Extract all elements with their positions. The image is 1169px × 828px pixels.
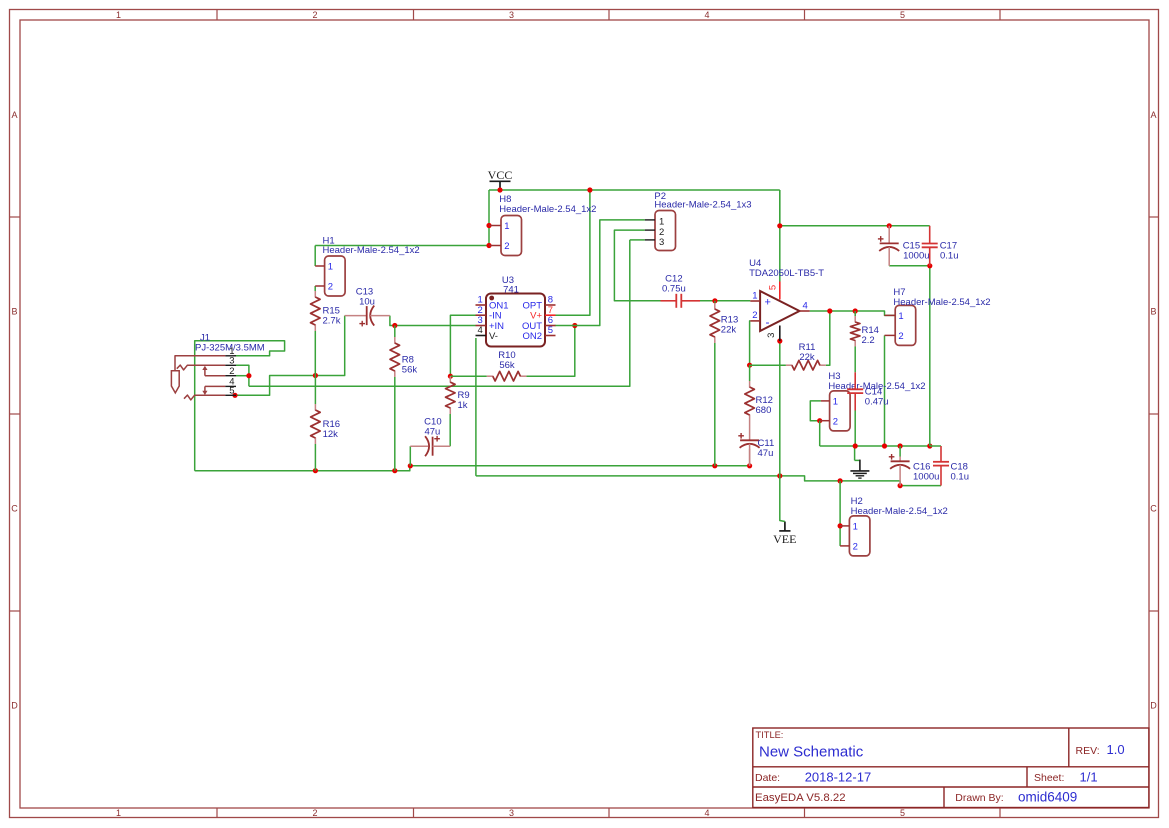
- H1 pin 2 stub: [315, 285, 324, 287]
- svg-text:3: 3: [659, 237, 664, 248]
- svg-text:VEE: VEE: [773, 532, 796, 546]
- wire C10 left drop: [409, 446, 411, 466]
- junction VCC at stem: [497, 187, 502, 192]
- junction output at R14: [853, 308, 858, 313]
- capacitor C16 1000u: [899, 457, 901, 462]
- wire H3 pin1 to pin2 loop: [810, 401, 821, 421]
- svg-text:+: +: [765, 297, 771, 309]
- header P2 box: [655, 211, 676, 251]
- wire decoupling bottom riser: [929, 266, 931, 446]
- svg-text:5: 5: [900, 10, 905, 20]
- resistor R16: [314, 404, 316, 411]
- svg-text:TDA2050L-TB5-T: TDA2050L-TB5-T: [749, 268, 824, 279]
- svg-text:56k: 56k: [499, 360, 515, 371]
- svg-text:3: 3: [766, 333, 777, 338]
- junction H2 pin1: [838, 523, 843, 528]
- svg-text:1: 1: [853, 521, 858, 532]
- resistor R8: [394, 337, 396, 344]
- capacitor C13 10u: [345, 315, 367, 317]
- svg-text:3: 3: [509, 808, 514, 818]
- wire P2 pin3 stub wire: [630, 239, 645, 241]
- header H2 box: [849, 516, 870, 556]
- svg-text:ON2: ON2: [522, 331, 542, 342]
- wire gnd rail: [820, 445, 930, 447]
- wire VCC rail left drop to H8: [488, 190, 490, 246]
- wire J1 pin5 to C13 branch: [235, 316, 345, 396]
- svg-text:Header-Male-2.54_1x2: Header-Male-2.54_1x2: [893, 297, 990, 308]
- svg-text:0.75u: 0.75u: [662, 283, 686, 294]
- svg-text:47u: 47u: [424, 426, 440, 437]
- wire C14 bottom to gnd rail: [854, 411, 856, 447]
- wire P2 pin2 to C12 left: [614, 230, 660, 301]
- svg-text:1: 1: [328, 262, 333, 273]
- svg-text:2: 2: [752, 310, 757, 321]
- capacitor C12 0.75u: [661, 300, 677, 302]
- wire R13 to mid rail: [714, 343, 716, 466]
- junction VEE rail at U4 pin3 drop: [777, 473, 782, 478]
- junction OUT node: [572, 323, 577, 328]
- svg-text:2.2: 2.2: [862, 335, 875, 346]
- svg-text:Header-Male-2.54_1x2: Header-Male-2.54_1x2: [851, 506, 948, 517]
- svg-text:TITLE:: TITLE:: [756, 730, 784, 740]
- svg-text:2: 2: [328, 282, 333, 293]
- H8 pin 2 stub: [489, 245, 501, 247]
- junction J1 pin2-3 node: [246, 373, 251, 378]
- wire J1 pin2 stub: [236, 375, 249, 377]
- svg-text:omid6409: omid6409: [1018, 790, 1077, 805]
- capacitor C14 0.47u: [854, 372, 856, 389]
- power symbol VEE: [779, 530, 790, 532]
- svg-text:4: 4: [704, 10, 709, 20]
- ground symbol: [850, 446, 869, 478]
- wire H7 pin2 drop to gnd rail: [884, 335, 886, 446]
- resistor R9: [449, 376, 451, 383]
- svg-text:56k: 56k: [402, 364, 418, 375]
- svg-text:EasyEDA V5.8.22: EasyEDA V5.8.22: [755, 792, 846, 804]
- wire VCC rail to decoupling caps: [779, 190, 781, 226]
- wire H1 pin1 riser: [314, 246, 316, 267]
- resistor R10: [487, 375, 494, 377]
- header H1 box: [325, 256, 346, 296]
- svg-text:741: 741: [503, 284, 519, 295]
- frame column numbers 1-5: [116, 10, 905, 818]
- wire H2 riser: [839, 481, 841, 546]
- svg-text:3: 3: [509, 10, 514, 20]
- svg-text:5: 5: [548, 325, 553, 336]
- power symbol VCC: [490, 180, 511, 182]
- junction output at R11 riser: [827, 308, 832, 313]
- svg-text:Header-Male-2.54_1x3: Header-Male-2.54_1x3: [654, 200, 751, 211]
- junction C16 bottom: [898, 483, 903, 488]
- svg-text:VCC: VCC: [488, 168, 513, 182]
- svg-text:V-: V-: [489, 331, 498, 342]
- H7 pin 1 stub: [885, 314, 896, 316]
- svg-text:Drawn By:: Drawn By:: [955, 792, 1003, 804]
- resistor R15: [314, 291, 316, 298]
- junction gnd at H7 drop: [882, 443, 887, 448]
- wire input long horizontal to P2 pin3: [249, 240, 630, 386]
- wire J1 pin3 to pin2 junction: [236, 365, 249, 386]
- junction J1 pin5: [232, 393, 237, 398]
- svg-text:0.1u: 0.1u: [940, 250, 959, 261]
- svg-text:D: D: [11, 701, 18, 711]
- frame row tick marks: [10, 217, 1159, 611]
- header H7 box: [895, 305, 916, 345]
- wire C16 top drop: [899, 446, 901, 457]
- wire R16 to bottom rail: [314, 444, 316, 471]
- junction VEE rail at H2 riser: [838, 478, 843, 483]
- svg-text:C: C: [11, 504, 18, 514]
- wire R15 to mid node: [314, 331, 316, 376]
- svg-text:1: 1: [752, 290, 757, 301]
- wire R8 riser: [394, 326, 396, 338]
- junction U4 pin3: [777, 338, 782, 343]
- junction H3 pin2: [817, 418, 822, 423]
- svg-text:2: 2: [229, 366, 234, 377]
- svg-text:22k: 22k: [721, 324, 737, 335]
- svg-text:1: 1: [116, 10, 121, 20]
- svg-text:Date:: Date:: [755, 772, 780, 784]
- svg-text:2: 2: [853, 541, 858, 552]
- svg-text:5: 5: [768, 285, 779, 290]
- svg-text:5: 5: [900, 808, 905, 818]
- H1 pin 1 stub: [315, 265, 324, 267]
- resistor R14: [854, 316, 856, 323]
- capacitor C18 0.1u: [940, 446, 942, 462]
- svg-text:1/1: 1/1: [1080, 769, 1098, 784]
- svg-text:4: 4: [803, 301, 808, 312]
- junction C15-C17 bottom: [927, 263, 932, 268]
- svg-text:2: 2: [312, 10, 317, 20]
- junction R9 top node: [448, 374, 453, 379]
- wire R14 top stub wire: [854, 311, 856, 316]
- header H3 box: [830, 391, 851, 431]
- wire U3 pin4 V- drop: [475, 338, 477, 476]
- svg-text:B: B: [11, 307, 17, 317]
- wire VEE bottom rail: [476, 476, 941, 486]
- junction H8 pin1: [486, 223, 491, 228]
- capacitor C11 47u: [749, 439, 751, 441]
- svg-text:2018-12-17: 2018-12-17: [805, 769, 872, 784]
- H3 pin 1 stub: [821, 400, 830, 402]
- svg-text:10u: 10u: [359, 296, 375, 307]
- svg-text:1000u: 1000u: [913, 471, 939, 482]
- svg-text:-: -: [766, 315, 770, 329]
- H2 pin 1 stub: [840, 525, 849, 527]
- H8 pin 1 stub: [489, 225, 501, 227]
- wire R8 to bottom rail: [394, 377, 396, 471]
- junction gnd at caps riser: [927, 443, 932, 448]
- resistor R12: [749, 381, 751, 388]
- svg-text:2: 2: [504, 241, 509, 252]
- svg-text:5: 5: [229, 386, 234, 397]
- junction R15-R16 mid node: [313, 373, 318, 378]
- junction VCC rail corner: [777, 223, 782, 228]
- wire R12 to C11: [749, 421, 751, 440]
- capacitor C17 0.1u: [929, 226, 931, 244]
- wire feedback node to R11 left: [750, 364, 786, 366]
- wire U3 pin7 V+ riser to VCC rail: [555, 190, 590, 315]
- wire H1 pin2 to R15: [314, 286, 316, 291]
- junction C13-R8-+IN node: [392, 323, 397, 328]
- svg-text:Header-Male-2.54_1x2: Header-Male-2.54_1x2: [499, 204, 596, 215]
- resistor R11: [786, 364, 793, 366]
- wire VEE stem drop: [780, 476, 785, 522]
- wire C12 right to U4 pin1: [700, 300, 750, 302]
- resistor R13: [714, 303, 716, 310]
- P2 pin 1 stub: [645, 219, 655, 221]
- junction C15 top: [887, 223, 892, 228]
- capacitor C15 1000u: [888, 226, 890, 244]
- wire C11 bottom to rail: [749, 449, 751, 466]
- wire U4 pin4 output rail: [810, 311, 896, 315]
- junction gnd at C16 top: [898, 443, 903, 448]
- wire C13 right to +IN: [390, 316, 476, 326]
- op-amp U3 741 body: [476, 294, 556, 347]
- wire bottom-left rail: [195, 466, 410, 471]
- svg-text:1.0: 1.0: [1107, 742, 1125, 757]
- wire J1 pin1 route around label: [195, 341, 285, 471]
- title block grid: [753, 728, 1149, 808]
- svg-text:1: 1: [116, 808, 121, 818]
- svg-text:A: A: [1150, 110, 1156, 120]
- svg-text:4: 4: [478, 325, 483, 336]
- junction feedback node: [747, 363, 752, 368]
- svg-text:4: 4: [704, 808, 709, 818]
- svg-text:1k: 1k: [458, 400, 468, 411]
- H2 pin 2 stub: [840, 545, 849, 547]
- P2 pin 3 stub: [645, 239, 655, 241]
- svg-text:Sheet:: Sheet:: [1034, 772, 1064, 784]
- wire U4 pin3 drop: [779, 341, 781, 476]
- header H8 box: [501, 216, 522, 256]
- svg-text:680: 680: [756, 405, 772, 416]
- svg-text:2.7k: 2.7k: [323, 315, 341, 326]
- wire U4 pin5 V+ drop: [779, 190, 781, 282]
- svg-text:22k: 22k: [799, 352, 815, 363]
- junction C12-R13 node: [712, 298, 717, 303]
- svg-text:C: C: [1150, 504, 1157, 514]
- junction C10 left on rail: [408, 463, 413, 468]
- svg-text:1: 1: [833, 396, 838, 407]
- svg-text:0.47u: 0.47u: [865, 396, 889, 407]
- wire H8 pin2 to H1 pin1 long horizontal: [315, 245, 489, 247]
- frame column tick marks: [217, 10, 1000, 818]
- svg-text:1: 1: [504, 221, 509, 232]
- wire feedback node to R12: [749, 365, 751, 381]
- P2 pin 2 stub: [645, 229, 655, 231]
- svg-text:0.1u: 0.1u: [951, 471, 970, 482]
- wire R14 to C14: [854, 347, 856, 373]
- wire R9 bottom to C10 right: [449, 414, 451, 446]
- wire U4 pin2 to feedback node: [749, 321, 752, 365]
- svg-text:Header-Male-2.54_1x2: Header-Male-2.54_1x2: [323, 245, 420, 256]
- wire U3 pin6 OUT stub wire: [555, 325, 575, 327]
- H3 pin 2 stub: [820, 420, 830, 422]
- junction C11 bottom on rail: [747, 463, 752, 468]
- svg-text:A: A: [11, 110, 17, 120]
- wire VCC top rail: [489, 189, 780, 191]
- junction R8 bottom on rail: [392, 468, 397, 473]
- frame row letters A-D: [11, 110, 1157, 711]
- svg-text:1000u: 1000u: [903, 250, 929, 261]
- junction H8 pin2: [486, 243, 491, 248]
- svg-text:2: 2: [898, 331, 903, 342]
- svg-text:3: 3: [229, 356, 234, 367]
- wire mid node to R16: [314, 376, 316, 405]
- wire R13 riser: [714, 301, 716, 303]
- junction gnd at C14: [853, 443, 858, 448]
- svg-text:New Schematic: New Schematic: [759, 744, 864, 761]
- wire H3 pin2 drop to gnd rail: [819, 421, 821, 446]
- wire -IN to R9 top: [450, 315, 475, 376]
- junction VCC at pin7 riser: [587, 187, 592, 192]
- junction R13 bottom on rail: [712, 463, 717, 468]
- wire mid rail to C11: [410, 465, 750, 467]
- wire R11 right to output riser: [826, 311, 830, 365]
- svg-text:47u: 47u: [758, 448, 774, 459]
- wire OUT to P2 pin1: [575, 220, 645, 326]
- op-amp U4 TDA2050L-TB5-T body: [750, 282, 809, 342]
- J1 pin numbers: [229, 346, 234, 397]
- wire C18 top jog: [930, 445, 941, 447]
- svg-text:1: 1: [898, 311, 903, 322]
- svg-text:REV:: REV:: [1076, 745, 1100, 757]
- svg-text:12k: 12k: [323, 429, 339, 440]
- svg-text:2: 2: [312, 808, 317, 818]
- connector J1 audio jack PJ-325M/3.5MM: [171, 356, 236, 400]
- svg-text:B: B: [1150, 307, 1156, 317]
- svg-text:D: D: [1150, 701, 1157, 711]
- junction R16 bottom on rail: [313, 468, 318, 473]
- svg-text:2: 2: [833, 416, 838, 427]
- wire C15 bottom link: [889, 265, 930, 267]
- wire R9 top node to R10 left: [450, 375, 486, 377]
- H7 pin 2 stub: [885, 334, 896, 336]
- wire R10 right to OUT drop: [526, 326, 574, 377]
- capacitor C10 47u: [410, 445, 428, 447]
